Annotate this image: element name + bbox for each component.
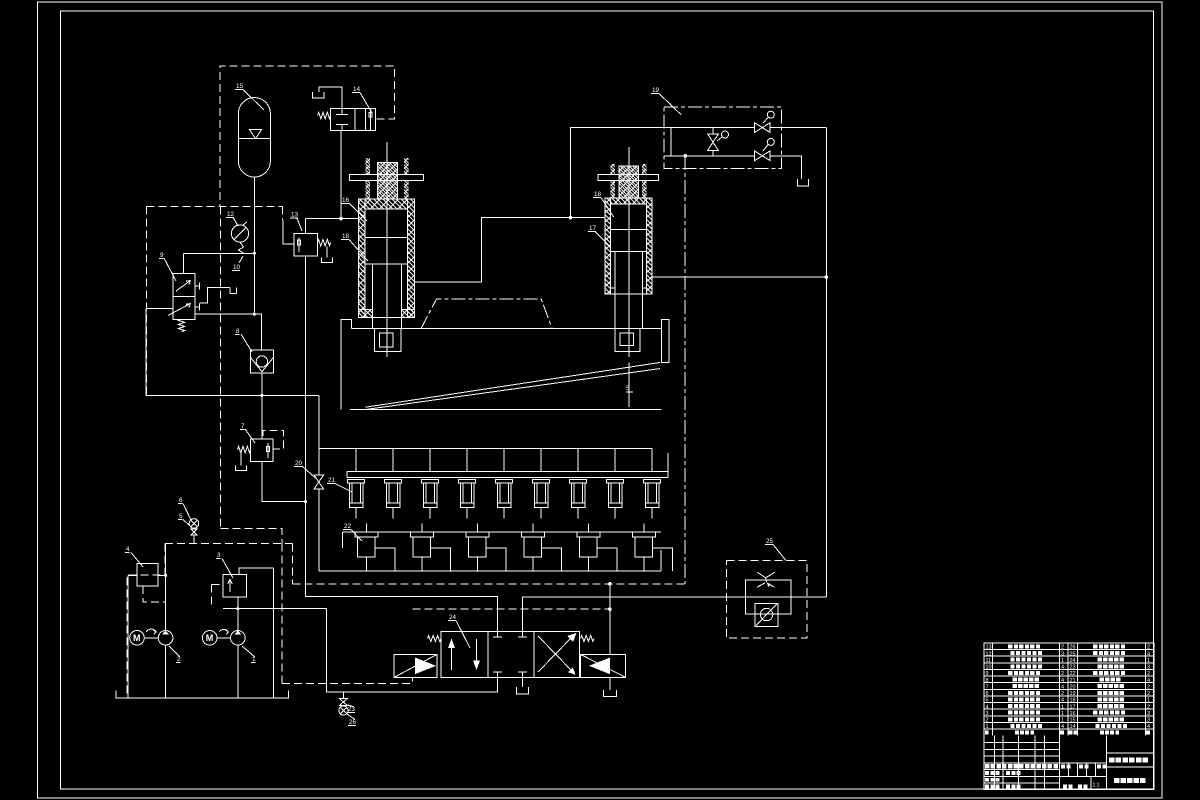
cylinder 17 hatched top gland [610, 198, 646, 204]
wire pump return to press header [326, 691, 343, 693]
svg-text:8: 8 [986, 678, 989, 684]
svg-text:M: M [206, 633, 214, 643]
breather 5 6 [189, 519, 199, 529]
valve 7 pilot dashed loop [263, 431, 284, 450]
svg-text:23: 23 [348, 706, 356, 713]
circled label 21 small [722, 131, 729, 138]
cylinder 16 rod [372, 264, 374, 329]
wire right solenoid pilot [609, 584, 611, 655]
svg-text:3: 3 [986, 711, 989, 717]
svg-text:4: 4 [986, 704, 989, 710]
valve 24 right position crossed arrows [538, 634, 576, 672]
junction on main pipe [260, 394, 263, 397]
wire valve 13 left pilot [283, 220, 294, 244]
valve 7 spring [238, 446, 251, 452]
title block grid [984, 762, 1059, 764]
wire pump1 pressure [237, 597, 239, 630]
hydraulic cylinder 16 outer body [358, 199, 414, 317]
valve 14 drain line to tank [319, 87, 342, 109]
coupling M2-P2 [144, 637, 158, 639]
svg-text:22: 22 [344, 523, 352, 530]
valve 24 left position arrows [451, 648, 453, 670]
cylinder 16 centerline [386, 142, 388, 357]
tank symbol valve 24 center [516, 687, 528, 694]
svg-text:12: 12 [986, 651, 992, 657]
title block text [985, 764, 990, 768]
wire check valve 8 to relief valve 7 [261, 373, 263, 439]
check valve in box 25 [755, 604, 778, 627]
dash-dot box 19 [664, 107, 782, 168]
svg-text:13: 13 [291, 212, 299, 219]
tank symbol below valve 13 spring [326, 247, 328, 258]
svg-text:16: 16 [342, 197, 350, 204]
junction drain header [304, 500, 307, 503]
electric motor M2 [130, 631, 145, 646]
tank symbol below valve 7 spring [240, 453, 242, 466]
svg-text:17: 17 [589, 225, 597, 232]
wire pilot line valve 9 to accumulator line [184, 252, 255, 254]
svg-text:2: 2 [1061, 671, 1064, 677]
shutoff valve 20 on ejector feed [314, 475, 324, 489]
svg-text:2: 2 [1061, 691, 1064, 697]
wire return header [223, 608, 326, 610]
junction accumulator pilot [253, 252, 256, 255]
cylinder 17 piston [610, 229, 646, 231]
svg-text:1: 1 [1147, 658, 1150, 664]
throttle 10 jog from gauge [239, 242, 244, 253]
valve 13 body [294, 234, 317, 256]
cylinder 17 centerline [628, 147, 630, 357]
svg-text:1: 1 [1061, 717, 1064, 723]
svg-text:4: 4 [1147, 678, 1150, 684]
solenoid 24 right [581, 654, 626, 677]
svg-text:2: 2 [1147, 691, 1150, 697]
svg-text:8: 8 [236, 328, 240, 335]
svg-text:24: 24 [1070, 658, 1076, 664]
wire bottom collector [319, 570, 661, 572]
wire pump1 suction [237, 645, 239, 698]
wire box19 upper pipe [664, 127, 755, 129]
cylinder 17 ram rod hatched [619, 166, 638, 198]
cylinder 17 studs [611, 164, 615, 174]
svg-text:7: 7 [241, 423, 245, 430]
svg-text:9: 9 [160, 252, 164, 259]
tank bottom line [116, 690, 289, 698]
wire box19 lower pipe [664, 155, 755, 157]
wire main pipe left header [146, 309, 319, 396]
junction interstage [569, 216, 573, 220]
valve 9 pilot line up [183, 253, 185, 273]
svg-text:4: 4 [126, 546, 130, 553]
svg-text:26: 26 [349, 719, 357, 726]
dashed fragment below filter 4 [143, 586, 165, 602]
dashed enclosure box around accumulator and valve 14 [220, 66, 395, 207]
dashed enclosure pump station boundary [220, 529, 282, 544]
cylinder 16 piston [365, 237, 407, 239]
svg-text:10: 10 [986, 665, 992, 671]
press wedge lower line [367, 369, 660, 410]
wire filter4 ports [158, 574, 166, 576]
cylinder 17 cavity [610, 204, 646, 294]
svg-text:23: 23 [1070, 665, 1076, 671]
press slide outline (dash-dot) [421, 299, 552, 328]
cylinder 16 top flange [349, 174, 423, 180]
dashed fragment left of filter 3 [212, 584, 224, 586]
svg-text:3: 3 [217, 552, 221, 559]
valve 24 center position closed ports [496, 632, 498, 638]
valve 24 springs [428, 636, 442, 642]
svg-text:2: 2 [1147, 645, 1150, 651]
throttle symbol in box 25 [757, 572, 775, 587]
press beam top line [352, 328, 375, 330]
valve 9 left port line [146, 308, 173, 310]
ejector return cylinders 22 bottom row [365, 523, 367, 532]
cylinder 16 studs [365, 158, 369, 175]
cylinder 17 hatched right wall [647, 198, 653, 294]
hydraulic pump 1 [231, 631, 246, 646]
ejector cylinders 21 top row [348, 480, 365, 484]
dashed enclosure press bottom boundary [292, 543, 294, 584]
svg-text:M: M [133, 633, 141, 643]
cylinder 16 hatched top gland [365, 199, 407, 209]
coupling M1-P1 [217, 637, 231, 639]
wire return drop to valve 24 [326, 609, 497, 692]
valve 9 lower arrow [168, 304, 191, 316]
svg-text:2: 2 [1147, 704, 1150, 710]
svg-text:16: 16 [1070, 711, 1076, 717]
press left edge [341, 319, 352, 409]
junction valve 14 drop [339, 217, 343, 221]
wire pump2 pressure [165, 543, 167, 630]
rod coupling 16 [375, 329, 401, 352]
breather 23 with silencer 26 [342, 692, 344, 699]
svg-text:15: 15 [236, 83, 244, 90]
svg-text:2: 2 [1147, 684, 1150, 690]
svg-text:7: 7 [986, 684, 989, 690]
circled label 22 [767, 111, 774, 118]
cylinder 17 top flange [598, 174, 659, 180]
junction pump1 return tee [236, 607, 239, 610]
check valve 8 body [251, 350, 274, 373]
cylinder 17 bottom gland [610, 287, 615, 289]
svg-text:19: 19 [1070, 691, 1076, 697]
circled label 23 small [767, 138, 774, 145]
press wedge upper line [366, 363, 660, 408]
electric motor M1 [202, 631, 217, 646]
svg-text:3: 3 [1147, 665, 1150, 671]
svg-text:4: 4 [1061, 724, 1064, 730]
svg-text:21: 21 [328, 477, 336, 484]
svg-text:11: 11 [986, 658, 992, 664]
valve 9 upper arrow [176, 281, 191, 292]
junction pilot takeoff [684, 154, 688, 158]
tank symbol box 19 drain [798, 179, 809, 186]
svg-text:18: 18 [1070, 698, 1076, 704]
cylinder 16 cavity [365, 209, 407, 318]
svg-text:2: 2 [1147, 671, 1150, 677]
svg-text:25: 25 [1070, 651, 1076, 657]
cylinder 16 hatched left wall [358, 199, 365, 317]
wire valve 13 to directional valve 24 [305, 256, 497, 631]
svg-text:2: 2 [1061, 645, 1064, 651]
wire valve 14 to cylinder line [340, 131, 342, 219]
junction at flow-control riser [825, 275, 829, 279]
parts list table grid [984, 643, 1154, 790]
filter 4 body [137, 564, 158, 587]
relief valve 7 body [251, 439, 273, 461]
wire flow control riser [825, 128, 827, 597]
press base line [350, 408, 662, 410]
shutoff valve upper in box 19 [755, 123, 770, 133]
svg-text:5: 5 [986, 698, 989, 704]
ejector manifold rails [319, 448, 652, 450]
throttle valve body 25 [746, 580, 792, 614]
wire rod side pipe between cylinders [415, 218, 605, 282]
bottom row collector rail [342, 531, 661, 533]
directional valve 24 body [441, 632, 488, 678]
svg-text:4: 4 [1147, 724, 1150, 730]
shutoff valve lower in box 19 [755, 151, 770, 161]
cylinder 17 hatched left wall [605, 198, 611, 294]
dashed pilot line right [412, 608, 609, 610]
svg-text:3: 3 [1061, 651, 1064, 657]
svg-text:20: 20 [1070, 684, 1076, 690]
accumulator 15 body [238, 98, 270, 178]
solenoid 24 left [394, 654, 437, 677]
pressure gauge 12 [231, 225, 248, 242]
junction at accumulator line bottom [253, 313, 256, 316]
svg-text:14: 14 [353, 86, 361, 93]
svg-text:1: 1 [986, 724, 989, 730]
dashed box 25 [727, 560, 807, 638]
svg-text:1: 1 [1061, 658, 1064, 664]
valve 14 right position flow path [370, 109, 372, 131]
svg-text:20: 20 [295, 460, 303, 467]
svg-text:24: 24 [449, 614, 457, 621]
valve 9 body [173, 274, 195, 297]
svg-text:18: 18 [342, 233, 350, 240]
wire valve 13 top port [304, 219, 306, 234]
wire cap line cylinder 16 [305, 218, 358, 220]
svg-text:18: 18 [594, 191, 602, 198]
valve 9 right blocked ports [195, 285, 199, 287]
valve 13 spring [318, 240, 331, 246]
check valve in box 19 [708, 134, 719, 151]
svg-text:22: 22 [1070, 671, 1076, 677]
svg-text:2: 2 [177, 656, 181, 663]
svg-text:13: 13 [986, 645, 992, 651]
cylinder 16 bottom gland [358, 309, 372, 317]
valve 9 pilot stub Z [200, 288, 231, 303]
wire filter3 top to main riser [239, 568, 274, 574]
junction pilot dashed upper [608, 582, 612, 586]
svg-text:4: 4 [1061, 665, 1064, 671]
svg-text:21: 21 [1070, 678, 1076, 684]
svg-text:1: 1 [252, 656, 256, 663]
wire accumulator drop line [253, 177, 255, 314]
junction pilot dashed lower [608, 607, 612, 611]
svg-text:1: 1 [1147, 698, 1150, 704]
svg-text:3: 3 [1147, 717, 1150, 723]
svg-text:1: 1 [1061, 704, 1064, 710]
svg-text:14: 14 [1070, 724, 1076, 730]
cylinder 16 ram rod hatched [377, 163, 397, 200]
svg-text:3: 3 [1147, 711, 1150, 717]
svg-text:26: 26 [1070, 645, 1076, 651]
hydraulic cylinder 17 outer body [605, 198, 652, 294]
wire box19 upper pipe right [770, 127, 826, 129]
svg-text:6: 6 [986, 691, 989, 697]
wire cylinder 17 rod side to flow control [652, 276, 826, 278]
wire valve 9 to check valve 8 [195, 313, 254, 315]
valve 14 left position closed ports [341, 109, 343, 115]
wire riser to box 19 [571, 128, 665, 218]
svg-text:1:1: 1:1 [1093, 783, 1100, 789]
cylinder 16 hatched right wall [408, 199, 415, 317]
svg-text:4: 4 [1061, 684, 1064, 690]
svg-text:5: 5 [179, 513, 183, 520]
svg-text:4: 4 [1061, 678, 1064, 684]
cylinder 17 rod [614, 252, 616, 329]
junction filter4 tee [164, 574, 167, 577]
wire pump2 suction [165, 645, 167, 698]
valve 14 spring [318, 112, 331, 118]
wire box19 left connector [670, 128, 672, 156]
svg-text:10: 10 [233, 264, 241, 271]
tank symbol right solenoid [609, 677, 611, 690]
wire ejector feed drop [318, 395, 320, 448]
svg-text:4: 4 [1147, 651, 1150, 657]
svg-text:6: 6 [179, 497, 183, 504]
svg-text:19: 19 [652, 87, 660, 94]
svg-text:25: 25 [766, 538, 774, 545]
tank symbol at valve 14 drain [313, 92, 324, 98]
hydraulic pump 2 [158, 631, 173, 646]
svg-text:4: 4 [1061, 698, 1064, 704]
svg-text:15: 15 [1070, 717, 1076, 723]
dash-dot pilot line from box 19 down to press enclosure [684, 156, 686, 584]
dashed enclosure box around pilot valve group (left) [147, 206, 283, 208]
svg-text:9: 9 [986, 671, 989, 677]
wire valve24 tank port [521, 677, 523, 687]
wire main pressure riser [273, 568, 275, 698]
wire relief valve 7 to drain header [262, 462, 306, 502]
press right edge block [662, 319, 670, 362]
wedge dimension line [628, 363, 630, 408]
svg-text:2: 2 [986, 717, 989, 723]
press left centerline [340, 352, 342, 380]
filter 3 body [223, 574, 247, 597]
rod coupling 17 [615, 329, 640, 352]
valve 9 spring [178, 319, 184, 331]
svg-text:17: 17 [1070, 704, 1076, 710]
wire valve24 port B up [522, 597, 826, 632]
wire box19 lower pipe to drain [770, 156, 802, 179]
svg-text:1: 1 [1061, 711, 1064, 717]
valve 14 body [331, 109, 376, 131]
wire jog to check valve [254, 314, 261, 350]
